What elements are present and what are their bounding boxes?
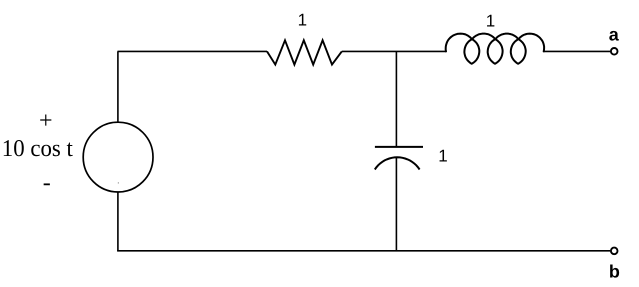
svg-text:b: b [609,262,620,282]
capacitor C curved bottom plate [375,157,420,169]
svg-text:10 cos t: 10 cos t [2,136,73,162]
svg-text:1: 1 [438,147,447,166]
terminal a circle [611,48,618,55]
stray mark inside source circle [118,182,119,183]
voltage source V1 circle [83,122,153,192]
resistor R zigzag [267,40,342,64]
wire: bottom horizontal from source branch to terminal b [117,250,610,252]
wire: left vertical from source bottom to bottom wire [117,192,119,251]
inductor L loops [446,34,544,64]
svg-text:1: 1 [298,10,307,29]
svg-text:+: + [39,108,53,134]
wire: left vertical from top wire down to source top [117,51,119,122]
wire: top-right from inductor to terminal a [544,50,611,52]
svg-text:1: 1 [486,11,495,30]
wire: top middle from resistor to inductor through node [342,50,446,52]
capacitor C top plate [375,146,423,148]
wire: capacitor branch from curved plate down to bottom wire [395,158,397,251]
svg-text:-: - [43,170,51,196]
svg-text:a: a [609,25,620,45]
node: junction of resistor, capacitor branch and inductor [395,51,397,146]
wire: top-left horizontal from source branch to resistor [118,50,268,52]
terminal b circle [611,248,618,255]
